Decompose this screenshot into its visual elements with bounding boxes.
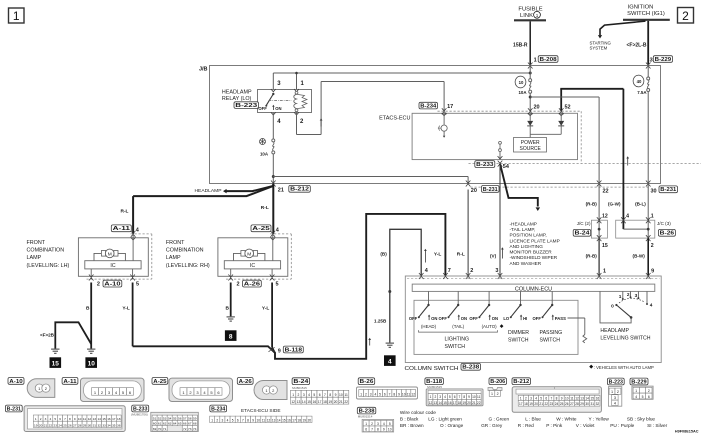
svg-text:PASSING: PASSING xyxy=(540,330,563,336)
node 3 B-229 xyxy=(650,58,653,64)
svg-text:8: 8 xyxy=(556,397,558,401)
svg-text:2: 2 xyxy=(682,9,689,23)
svg-text:1: 1 xyxy=(651,214,654,220)
svg-text:1: 1 xyxy=(635,389,637,393)
lamp LH pin 5 xyxy=(130,269,139,287)
svg-text:5: 5 xyxy=(389,422,391,426)
svg-text:AND WASHER: AND WASHER xyxy=(510,261,542,266)
svg-text:B-223: B-223 xyxy=(235,103,257,109)
svg-text:11: 11 xyxy=(407,392,411,396)
J/B bottom crossing node 22 xyxy=(597,181,602,187)
svg-text:4: 4 xyxy=(535,397,537,401)
svg-text:2: 2 xyxy=(371,422,373,426)
svg-text:(MU801706): (MU801706) xyxy=(131,413,148,417)
wire label B-L xyxy=(635,202,654,220)
auto light sensor in ETACS xyxy=(438,113,447,137)
svg-text:5: 5 xyxy=(642,395,644,399)
svg-text:2: 2 xyxy=(617,390,619,394)
svg-text:4: 4 xyxy=(626,214,629,220)
svg-text:B: B xyxy=(86,306,90,312)
svg-text:Y-L: Y-L xyxy=(262,306,270,312)
svg-text:72: 72 xyxy=(183,427,187,431)
svg-text:B-118: B-118 xyxy=(285,347,303,353)
svg-text:0: 0 xyxy=(611,303,614,309)
svg-text:8: 8 xyxy=(393,392,395,396)
svg-text:9: 9 xyxy=(278,349,281,355)
svg-text:A-26: A-26 xyxy=(239,379,252,385)
svg-text:B: B xyxy=(226,306,230,312)
front combination lamp RH xyxy=(166,238,288,276)
svg-text:BR : Brown: BR : Brown xyxy=(400,423,424,428)
wire Y-L RH xyxy=(262,283,272,348)
J/B bottom crossing node 30 xyxy=(646,181,651,187)
connector B-234 pinout xyxy=(241,408,281,413)
svg-text:1: 1 xyxy=(603,269,606,275)
svg-text:2: 2 xyxy=(627,292,630,298)
svg-text:1: 1 xyxy=(491,392,493,396)
svg-text:55: 55 xyxy=(173,416,177,420)
svg-text:PU : Purple: PU : Purple xyxy=(610,423,634,428)
svg-text:5: 5 xyxy=(449,395,451,399)
svg-text:B-24: B-24 xyxy=(293,379,308,385)
svg-text:20: 20 xyxy=(334,400,338,404)
svg-text:(R-B): (R-B) xyxy=(586,254,598,259)
svg-text:OFF: OFF xyxy=(258,106,267,111)
svg-text:(B-W): (B-W) xyxy=(633,254,646,259)
svg-text:74: 74 xyxy=(193,427,197,431)
svg-text:51: 51 xyxy=(153,416,157,420)
svg-text:5: 5 xyxy=(313,393,315,397)
svg-text:SYSTEM: SYSTEM xyxy=(590,46,608,51)
svg-text:GR : Grey: GR : Grey xyxy=(481,423,503,428)
connector B-24 pinout xyxy=(292,386,307,390)
svg-text:B-208: B-208 xyxy=(540,57,557,63)
connector B-238 pinout xyxy=(358,414,394,432)
levelling motor RH xyxy=(234,234,273,261)
svg-text:27: 27 xyxy=(570,402,574,406)
svg-text:6: 6 xyxy=(365,428,367,432)
svg-text:5: 5 xyxy=(276,281,279,287)
svg-text:10A: 10A xyxy=(518,90,527,95)
svg-text:A-11: A-11 xyxy=(63,379,76,385)
svg-text:4: 4 xyxy=(374,392,376,396)
svg-text:6: 6 xyxy=(648,395,650,399)
svg-text:14: 14 xyxy=(585,397,589,401)
svg-text:21: 21 xyxy=(472,401,476,405)
lamp RH pin 2 A-26 xyxy=(228,269,239,287)
svg-text:(HEAD): (HEAD) xyxy=(421,324,437,329)
svg-text:MU801515: MU801515 xyxy=(292,386,307,390)
svg-text:Y-L: Y-L xyxy=(434,252,442,258)
joint connector J/C(3) B-26 xyxy=(616,217,672,241)
wire J/C(3) to column pin 9 xyxy=(633,238,655,276)
svg-text:13: 13 xyxy=(297,400,301,404)
column switch outline B-238 xyxy=(405,276,662,372)
svg-text:61: 61 xyxy=(158,422,162,426)
svg-text:26: 26 xyxy=(565,402,569,406)
svg-text:19: 19 xyxy=(462,401,466,405)
J/B boundary crossing node 1 xyxy=(528,63,533,69)
svg-text:: VEHICLES WITH AUTO LAMP: : VEHICLES WITH AUTO LAMP xyxy=(594,365,654,370)
svg-text:SI : Silver: SI : Silver xyxy=(647,423,667,428)
svg-text:16: 16 xyxy=(448,401,452,405)
svg-text:1.25B: 1.25B xyxy=(374,318,387,323)
levelling motor LH xyxy=(94,234,133,261)
connector A-25 pinout xyxy=(169,378,233,401)
svg-text:15: 15 xyxy=(102,417,106,421)
svg-text:2: 2 xyxy=(497,392,499,396)
svg-text:2: 2 xyxy=(236,281,239,287)
connector B-223 pinout xyxy=(608,387,621,407)
ETACS pin 52 xyxy=(559,89,624,116)
joint connector J/C(2) B-24 xyxy=(577,217,608,241)
ground 10 xyxy=(87,349,95,353)
svg-text:B-206: B-206 xyxy=(490,379,505,385)
svg-text:60: 60 xyxy=(153,422,157,426)
switch group box xyxy=(414,300,578,354)
svg-text:19: 19 xyxy=(303,418,307,422)
svg-text:10A: 10A xyxy=(260,152,269,157)
connector B-206 pinout xyxy=(488,388,502,391)
svg-text:19: 19 xyxy=(34,423,38,427)
svg-text:22: 22 xyxy=(477,401,481,405)
svg-text:17: 17 xyxy=(112,417,116,421)
note vehicles with auto lamp xyxy=(589,365,654,370)
svg-text:SOURCE: SOURCE xyxy=(519,146,541,152)
svg-text:9: 9 xyxy=(335,393,337,397)
svg-text:HEADLAMP: HEADLAMP xyxy=(195,188,222,193)
svg-text:21: 21 xyxy=(44,423,48,427)
svg-text:SWITCH: SWITCH xyxy=(508,337,529,343)
IC block RH xyxy=(224,261,280,270)
lamp LH connector dashed xyxy=(87,234,152,279)
svg-text:30: 30 xyxy=(651,188,657,194)
svg-text:2: 2 xyxy=(470,268,473,274)
svg-text:4: 4 xyxy=(383,422,385,426)
svg-text:B-26: B-26 xyxy=(660,231,675,237)
svg-text:R : Red: R : Red xyxy=(518,423,534,428)
svg-text:26: 26 xyxy=(68,423,72,427)
wire R-L node 21 to RH lamp xyxy=(261,184,274,234)
svg-text:25: 25 xyxy=(63,423,67,427)
svg-text:73: 73 xyxy=(188,427,192,431)
svg-text:ETACS-ECU SIDE: ETACS-ECU SIDE xyxy=(241,408,281,413)
svg-text:10: 10 xyxy=(88,361,96,368)
connector line B-231 dashed xyxy=(471,186,649,188)
svg-text:ON: ON xyxy=(492,316,498,321)
svg-text:<F>2B: <F>2B xyxy=(40,332,55,337)
svg-text:IC: IC xyxy=(250,263,255,269)
svg-text:10: 10 xyxy=(339,393,343,397)
svg-text:B-118: B-118 xyxy=(426,379,442,385)
svg-text:25: 25 xyxy=(560,402,564,406)
svg-text:15: 15 xyxy=(307,400,311,404)
svg-text:65: 65 xyxy=(178,422,182,426)
svg-text:17: 17 xyxy=(519,402,523,406)
wire fuse 10 to node 22 xyxy=(530,97,599,220)
connector A-11 pinout xyxy=(81,378,145,401)
svg-text:56: 56 xyxy=(178,416,182,420)
svg-text:(B-L): (B-L) xyxy=(635,202,646,207)
svg-text:FRONT: FRONT xyxy=(27,240,46,246)
svg-text:13: 13 xyxy=(272,418,276,422)
svg-text:18: 18 xyxy=(117,417,121,421)
svg-text:62: 62 xyxy=(163,422,167,426)
svg-text:11: 11 xyxy=(262,418,266,422)
headlamp relay (LO) B-223 xyxy=(222,90,312,113)
svg-text:4: 4 xyxy=(308,393,310,397)
Y-L bus to node 9 B-118 xyxy=(133,214,446,359)
svg-text:8: 8 xyxy=(329,393,331,397)
svg-text:18: 18 xyxy=(323,400,327,404)
svg-text:17: 17 xyxy=(447,104,453,110)
svg-text:24: 24 xyxy=(555,402,559,406)
wire label R-L at column pin 2 xyxy=(457,190,474,277)
svg-text:1: 1 xyxy=(611,390,613,394)
lamp LH pin 4 A-11 xyxy=(131,228,140,240)
svg-text:7: 7 xyxy=(242,418,244,422)
svg-text:4: 4 xyxy=(650,302,653,308)
svg-text:4: 4 xyxy=(635,395,637,399)
svg-text:54: 54 xyxy=(503,164,510,170)
svg-text:8: 8 xyxy=(229,334,233,341)
svg-text:13: 13 xyxy=(580,397,584,401)
svg-text:35: 35 xyxy=(112,423,116,427)
ground 4 xyxy=(386,343,394,347)
svg-text:LIGHTING: LIGHTING xyxy=(445,336,470,342)
svg-text:M: M xyxy=(247,252,251,258)
svg-text:12: 12 xyxy=(267,418,271,422)
dimmer switch label xyxy=(508,330,529,344)
svg-text:20: 20 xyxy=(471,188,477,194)
lighting switch TAIL contact xyxy=(439,291,468,329)
svg-text:5: 5 xyxy=(136,281,139,287)
svg-text:7: 7 xyxy=(371,428,373,432)
svg-text:OFF: OFF xyxy=(533,316,542,321)
wire ETACS 52 to J/C(3) xyxy=(608,89,629,220)
svg-text:1: 1 xyxy=(536,13,539,18)
svg-text:J/C (2): J/C (2) xyxy=(577,221,591,226)
svg-text:1: 1 xyxy=(534,58,537,64)
svg-text:A-10: A-10 xyxy=(104,282,121,288)
svg-text:15: 15 xyxy=(443,401,447,405)
svg-text:8: 8 xyxy=(247,418,249,422)
svg-text:B-26: B-26 xyxy=(360,379,374,385)
svg-text:B-238: B-238 xyxy=(359,408,375,414)
svg-text:27: 27 xyxy=(73,423,77,427)
lamp RH pin 5 xyxy=(270,269,279,287)
svg-text:23: 23 xyxy=(54,423,58,427)
svg-text:21: 21 xyxy=(339,400,343,404)
relay pin 2 xyxy=(294,112,304,125)
svg-text:LAMP: LAMP xyxy=(27,255,42,261)
wire B to ground 4 xyxy=(374,229,429,342)
node 21 B-212 xyxy=(278,188,284,194)
wire V from pin 54 to column pin 3 xyxy=(490,164,504,276)
svg-text:O : Orange: O : Orange xyxy=(440,423,464,428)
svg-text:6: 6 xyxy=(237,418,239,422)
svg-text:20: 20 xyxy=(308,418,312,422)
svg-text:30: 30 xyxy=(88,423,92,427)
svg-text:7: 7 xyxy=(448,268,451,274)
svg-text:H9F08E15AC: H9F08E15AC xyxy=(675,429,699,433)
diode from pin 52 xyxy=(558,113,564,134)
svg-text:22: 22 xyxy=(545,402,549,406)
svg-text:A-25: A-25 xyxy=(153,379,166,385)
svg-text:18: 18 xyxy=(458,401,462,405)
svg-text:10: 10 xyxy=(256,418,260,422)
svg-text:10: 10 xyxy=(388,428,392,432)
svg-text:Y-L: Y-L xyxy=(122,306,130,312)
svg-text:LO: LO xyxy=(503,316,510,321)
node 30 B-231 xyxy=(651,188,657,194)
svg-text:OFF: OFF xyxy=(409,316,418,321)
svg-text:POSITION LAMP,: POSITION LAMP, xyxy=(510,233,547,238)
wire relay coil to ETACS pin 17 xyxy=(297,82,445,135)
svg-text:MONITOR BUZZER: MONITOR BUZZER xyxy=(510,250,553,255)
ETACS pin 20 xyxy=(528,97,540,116)
svg-text:A-26: A-26 xyxy=(244,282,261,288)
svg-text:G : Green: G : Green xyxy=(489,417,510,422)
svg-text:MU801514: MU801514 xyxy=(358,414,373,418)
svg-text:9: 9 xyxy=(651,269,654,275)
svg-text:11: 11 xyxy=(477,395,481,399)
svg-text:12: 12 xyxy=(429,401,433,405)
branch 2B to ground 15 xyxy=(40,322,91,348)
node 1 B-208 xyxy=(534,58,537,64)
connector A-10 pinout xyxy=(27,379,55,398)
svg-text:9: 9 xyxy=(468,395,470,399)
svg-text:20: 20 xyxy=(467,401,471,405)
svg-text:1: 1 xyxy=(292,393,294,397)
column switch top crossings xyxy=(419,273,651,279)
svg-text:7: 7 xyxy=(64,417,66,421)
fuse 40 7.5A xyxy=(633,66,650,221)
svg-text:6: 6 xyxy=(545,397,547,401)
lamp RH connector dashed xyxy=(226,234,291,279)
svg-text:B-231: B-231 xyxy=(7,406,21,412)
svg-text:LEVELLING SWITCH: LEVELLING SWITCH xyxy=(600,336,650,342)
svg-text:Wire colour code: Wire colour code xyxy=(400,410,436,416)
svg-text:ON: ON xyxy=(461,316,467,321)
svg-text:3: 3 xyxy=(377,422,379,426)
svg-text:B-233: B-233 xyxy=(133,406,148,412)
svg-text:4: 4 xyxy=(227,418,229,422)
svg-text:B-229: B-229 xyxy=(631,379,647,385)
svg-text:13: 13 xyxy=(93,417,97,421)
connector B-118 pinout xyxy=(426,385,483,406)
svg-text:1: 1 xyxy=(520,397,522,401)
svg-text:6: 6 xyxy=(319,393,321,397)
svg-text:12: 12 xyxy=(411,392,415,396)
dimmer switch contact xyxy=(503,291,527,321)
svg-text:ON: ON xyxy=(275,106,281,111)
svg-text:Y : Yellow: Y : Yellow xyxy=(589,417,610,422)
node 22 xyxy=(586,188,609,219)
svg-text:3: 3 xyxy=(370,392,372,396)
relay coil xyxy=(294,91,307,111)
svg-text:2: 2 xyxy=(216,418,218,422)
svg-text:69: 69 xyxy=(153,427,157,431)
svg-text:31: 31 xyxy=(591,402,595,406)
svg-text:OFF: OFF xyxy=(469,316,478,321)
svg-text:LAMP: LAMP xyxy=(166,255,181,261)
svg-text:36: 36 xyxy=(117,423,121,427)
wire pin 54 to lighting systems arrow xyxy=(500,164,540,211)
svg-text:40: 40 xyxy=(637,79,642,84)
ETACS-ECU dashed connector outline xyxy=(438,111,701,163)
svg-text:32: 32 xyxy=(596,402,600,406)
svg-text:HI: HI xyxy=(523,316,527,321)
svg-text:B-212: B-212 xyxy=(513,379,529,385)
relay pin 3 xyxy=(271,81,281,92)
svg-text:(AUTO): (AUTO) xyxy=(482,324,498,329)
wire relay feed inside J/B xyxy=(273,72,531,90)
column switch connector dashed line xyxy=(407,277,660,279)
wire B RH to ground xyxy=(226,283,231,317)
svg-text:22: 22 xyxy=(603,188,609,194)
svg-text:14: 14 xyxy=(277,418,281,422)
svg-text:10: 10 xyxy=(472,395,476,399)
svg-text:17: 17 xyxy=(453,401,457,405)
passing switch label xyxy=(540,330,563,344)
svg-text:3: 3 xyxy=(222,418,224,422)
connector A-26 pinout xyxy=(254,381,287,400)
svg-text:2: 2 xyxy=(651,243,654,249)
svg-text:5: 5 xyxy=(379,392,381,396)
svg-text:7: 7 xyxy=(551,397,553,401)
svg-text:B-238: B-238 xyxy=(462,365,479,371)
lighting systems note xyxy=(510,221,560,266)
svg-text:SWITCH: SWITCH xyxy=(445,344,466,350)
svg-text:3: 3 xyxy=(45,417,47,421)
svg-text:7: 7 xyxy=(389,392,391,396)
svg-text:5: 5 xyxy=(540,397,542,401)
svg-text:COLUMN SWITCH: COLUMN SWITCH xyxy=(405,366,459,372)
svg-text:ON: ON xyxy=(431,316,437,321)
svg-text:2: 2 xyxy=(648,389,650,393)
svg-text:59: 59 xyxy=(193,416,197,420)
svg-text:29: 29 xyxy=(83,423,87,427)
svg-text:4: 4 xyxy=(388,359,392,366)
svg-text:P : Pink: P : Pink xyxy=(546,423,563,428)
power source block xyxy=(514,134,562,152)
passing switch contact xyxy=(533,291,567,321)
svg-text:12: 12 xyxy=(602,214,608,220)
svg-text:33: 33 xyxy=(102,423,106,427)
svg-text:11: 11 xyxy=(83,417,86,421)
branch to starting system xyxy=(590,21,646,51)
svg-text:SB : Sky blue: SB : Sky blue xyxy=(627,417,656,422)
wire B LH to ground xyxy=(86,283,91,349)
svg-text:14: 14 xyxy=(302,400,306,404)
svg-text:LINK: LINK xyxy=(520,13,533,19)
node 20 B-231 xyxy=(471,188,477,194)
svg-text:8: 8 xyxy=(69,417,71,421)
svg-text:B : Black: B : Black xyxy=(400,417,419,422)
wire label Y-L at column pin 7 xyxy=(434,252,451,274)
svg-text:FRONT: FRONT xyxy=(166,240,185,246)
connector B-26 pinout xyxy=(357,387,418,399)
svg-text:1: 1 xyxy=(211,418,213,422)
svg-text:IGNITION: IGNITION xyxy=(628,5,654,11)
svg-text:POWER: POWER xyxy=(521,140,540,146)
svg-text:57: 57 xyxy=(183,416,187,420)
connector B-233 pinout xyxy=(131,412,198,431)
svg-text:B-212: B-212 xyxy=(290,187,309,193)
svg-text:12: 12 xyxy=(88,417,92,421)
svg-text:12: 12 xyxy=(291,400,295,404)
